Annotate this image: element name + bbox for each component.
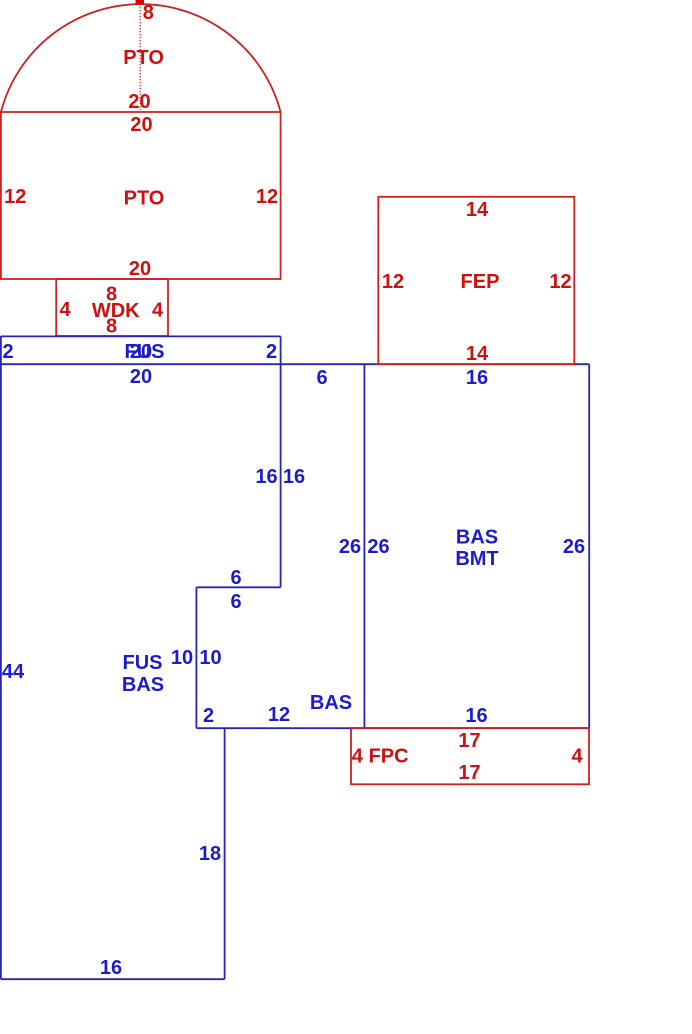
svg-text:20: 20 xyxy=(129,258,151,280)
svg-text:12: 12 xyxy=(268,704,290,726)
svg-text:20: 20 xyxy=(128,91,150,113)
svg-text:14: 14 xyxy=(466,199,489,221)
svg-text:16: 16 xyxy=(466,367,488,389)
svg-text:6: 6 xyxy=(230,567,241,589)
svg-text:2: 2 xyxy=(2,341,13,363)
svg-text:BAS: BAS xyxy=(456,526,498,548)
FPC rectangle xyxy=(351,728,589,784)
dome dotted centerline xyxy=(139,4,141,110)
PTO dome arc xyxy=(1,4,281,112)
right wall x281 upper xyxy=(280,336,282,587)
bottom wall y979 xyxy=(1,978,225,980)
main top wall y364 xyxy=(1,363,589,365)
svg-text:8: 8 xyxy=(143,2,154,24)
svg-text:PTO: PTO xyxy=(123,47,164,69)
svg-text:4: 4 xyxy=(571,745,583,767)
svg-text:18: 18 xyxy=(199,843,221,865)
PTO rectangle xyxy=(1,112,281,279)
svg-text:2: 2 xyxy=(203,705,214,727)
step wall x196 xyxy=(195,587,197,728)
svg-text:FEP: FEP xyxy=(461,271,500,293)
svg-text:16: 16 xyxy=(100,957,122,979)
svg-text:16: 16 xyxy=(255,466,277,488)
svg-text:BAS: BAS xyxy=(310,692,352,714)
svg-text:BMT: BMT xyxy=(455,548,498,570)
svg-text:20: 20 xyxy=(130,366,152,388)
svg-text:4: 4 xyxy=(352,745,364,767)
svg-text:FPC: FPC xyxy=(369,745,409,767)
svg-text:6: 6 xyxy=(230,591,241,613)
left wall x0 xyxy=(0,336,2,979)
svg-text:2: 2 xyxy=(266,341,277,363)
svg-text:26: 26 xyxy=(339,536,361,558)
svg-text:4: 4 xyxy=(152,299,164,321)
svg-text:16: 16 xyxy=(465,705,487,727)
svg-text:PTO: PTO xyxy=(124,188,165,210)
svg-text:8: 8 xyxy=(106,315,117,337)
BMT left wall x364 xyxy=(363,364,365,728)
BMT right wall x589 xyxy=(588,364,590,728)
FEP rectangle xyxy=(378,197,574,364)
svg-text:44: 44 xyxy=(2,661,25,683)
svg-text:BAS: BAS xyxy=(122,674,164,696)
svg-text:12: 12 xyxy=(382,271,404,293)
svg-text:FUS: FUS xyxy=(125,341,165,363)
svg-text:10: 10 xyxy=(171,647,193,669)
svg-text:4: 4 xyxy=(59,299,71,321)
svg-text:20: 20 xyxy=(130,114,152,136)
svg-text:16: 16 xyxy=(283,466,305,488)
svg-text:6: 6 xyxy=(316,367,327,389)
svg-text:10: 10 xyxy=(199,647,221,669)
svg-text:12: 12 xyxy=(4,186,26,208)
svg-text:14: 14 xyxy=(466,343,489,365)
step wall y587 xyxy=(196,586,280,588)
svg-text:12: 12 xyxy=(549,271,571,293)
svg-text:17: 17 xyxy=(458,762,480,784)
apex marker xyxy=(136,0,145,4)
bottom wall y728 xyxy=(196,727,589,729)
svg-text:FUS: FUS xyxy=(123,652,163,674)
svg-text:17: 17 xyxy=(458,730,480,752)
FUS strip top wall xyxy=(1,335,281,337)
svg-text:26: 26 xyxy=(367,536,389,558)
svg-text:26: 26 xyxy=(563,536,585,558)
WDK rectangle xyxy=(56,279,168,336)
svg-text:12: 12 xyxy=(256,186,278,208)
lower right wall x225 xyxy=(224,728,226,979)
